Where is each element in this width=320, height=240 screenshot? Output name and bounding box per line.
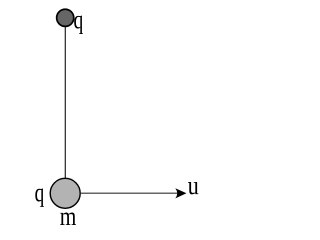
arrowhead of velocity vector u: [175, 188, 186, 198]
label m (mass): [60, 213, 76, 225]
node: top charge q (small dark circle): [57, 9, 74, 26]
label q (top charge): [74, 16, 83, 34]
label u (velocity): [188, 182, 198, 194]
label q (bottom charge): [35, 188, 44, 206]
wire: horizontal velocity arrow shaft: [81, 192, 182, 194]
node: bottom mass m with charge q (large light circle): [50, 178, 80, 208]
wire: vertical pendulum rod from top charge to bottom mass: [64, 18, 66, 194]
